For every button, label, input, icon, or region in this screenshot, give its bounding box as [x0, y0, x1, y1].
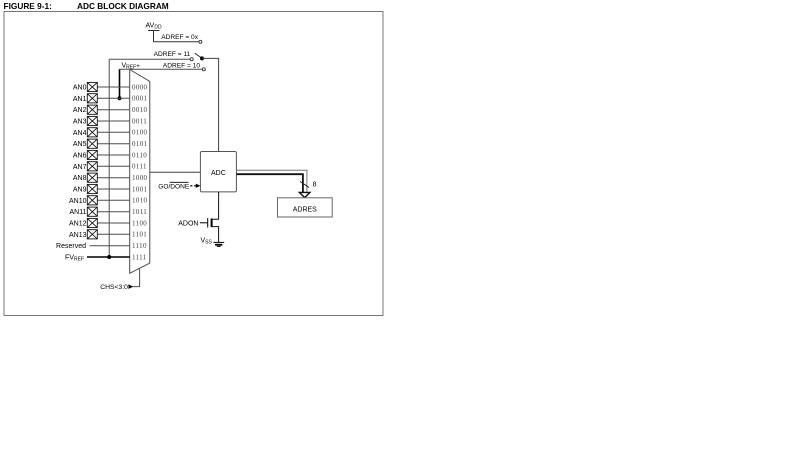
wire ADREF=11: [109, 58, 190, 60]
transistor Q1 ADON (NMOS): [200, 218, 212, 227]
wire ADC bottom to transistor drain: [212, 192, 218, 219]
svg-text:0011: 0011: [132, 117, 147, 125]
svg-text:0111: 0111: [132, 163, 147, 171]
svg-text:AN13: AN13: [69, 232, 87, 239]
svg-text:VSS: VSS: [201, 237, 213, 245]
input row FVREF: [65, 255, 130, 263]
analog switch box AN10: [87, 196, 97, 205]
input row AN10: [69, 198, 130, 205]
svg-text:ADC: ADC: [211, 170, 226, 177]
switch contact circle ADREF=0x: [199, 40, 202, 43]
analog switch box AN4: [87, 128, 97, 137]
analog switch box AN2: [87, 105, 97, 114]
switch contact circle ADREF=11: [190, 58, 193, 61]
ADRES box: [278, 198, 333, 217]
analog switch box AN5: [87, 139, 97, 148]
svg-text:1111: 1111: [132, 253, 147, 261]
svg-text:GO/DONE: GO/DONE: [158, 183, 190, 190]
junction dot FVREF: [107, 255, 111, 259]
svg-text:1000: 1000: [132, 174, 148, 182]
power AVDD label: [146, 23, 162, 31]
input row Reserved: [56, 243, 130, 250]
bus ADC to ADRES: [236, 170, 307, 193]
analog switch box AN6: [87, 150, 97, 159]
svg-text:Reserved: Reserved: [56, 243, 86, 250]
input row AN2: [73, 107, 130, 114]
svg-text:FVREF: FVREF: [65, 255, 84, 263]
wire VREF+ drop to AN1: [119, 69, 121, 98]
analog switch box AN13: [87, 230, 97, 239]
svg-text:AN4: AN4: [73, 130, 87, 137]
svg-text:0000: 0000: [132, 83, 148, 91]
svg-text:1101: 1101: [132, 231, 147, 239]
svg-text:AN8: AN8: [73, 175, 87, 182]
svg-text:0110: 0110: [132, 151, 147, 159]
analog switch box AN0: [87, 82, 97, 91]
figure frame: [4, 12, 383, 316]
svg-text:AN5: AN5: [73, 141, 87, 148]
analog switch box AN11: [87, 207, 97, 216]
svg-text:8: 8: [313, 182, 317, 189]
input row AN5: [73, 141, 130, 148]
svg-text:ADREF = 0x: ADREF = 0x: [161, 34, 199, 41]
svg-text:AN2: AN2: [73, 107, 87, 114]
input row AN4: [73, 130, 130, 137]
mux trapezoid: [130, 70, 150, 274]
input row AN1: [73, 96, 130, 103]
junction dot switch common: [200, 56, 204, 60]
input row AN9: [73, 187, 130, 194]
analog switch box AN3: [87, 116, 97, 125]
analog switch box AN9: [87, 184, 97, 193]
label GO/DONE with overline: [158, 182, 190, 190]
svg-text:1010: 1010: [132, 197, 148, 205]
power AVDD rail symbol: [148, 31, 160, 42]
svg-text:0101: 0101: [132, 140, 148, 148]
svg-text:AN3: AN3: [73, 119, 87, 126]
wire mux select CHS: [132, 269, 140, 287]
ground symbol: [214, 242, 225, 246]
svg-text:AN12: AN12: [69, 221, 87, 228]
svg-text:0001: 0001: [132, 95, 148, 103]
svg-text:AN10: AN10: [69, 198, 87, 205]
svg-text:1110: 1110: [132, 242, 147, 250]
junction dot VREF+ AN1: [118, 96, 122, 100]
wire switch common to ADC: [202, 58, 219, 151]
svg-text:AVDD: AVDD: [146, 23, 162, 31]
svg-text:AN6: AN6: [73, 153, 87, 160]
svg-text:0100: 0100: [132, 129, 148, 137]
input row AN8: [73, 175, 130, 182]
svg-text:ADC BLOCK DIAGRAM: ADC BLOCK DIAGRAM: [77, 1, 169, 11]
svg-text:ADREF = 10: ADREF = 10: [163, 62, 201, 69]
analog switch box AN1: [87, 94, 97, 103]
bus arrowhead: [299, 192, 310, 197]
analog switch box AN12: [87, 218, 97, 227]
svg-text:AN0: AN0: [73, 85, 87, 92]
wire mux output to ADC: [150, 171, 201, 173]
label CHS<3:0> with arrow: [100, 284, 133, 291]
svg-text:ADREF = 11: ADREF = 11: [154, 51, 191, 58]
input row AN11: [70, 209, 130, 216]
svg-text:AN1: AN1: [73, 96, 87, 103]
analog switch box AN7: [87, 162, 97, 171]
svg-text:1011: 1011: [132, 208, 147, 216]
svg-text:AN9: AN9: [73, 187, 87, 194]
svg-text:CHS<3:0>: CHS<3:0>: [100, 284, 132, 291]
wire VREF+ / ADREF=10: [120, 68, 203, 70]
svg-text:1100: 1100: [132, 219, 147, 227]
analog switch box AN8: [87, 173, 97, 182]
svg-text:AN7: AN7: [73, 164, 87, 171]
switch contact circle ADREF=10: [202, 68, 205, 71]
svg-text:AN11: AN11: [70, 209, 87, 216]
dashed arrow GO/DONE to ADC: [190, 184, 200, 188]
input row AN6: [73, 153, 130, 160]
input row AN12: [69, 221, 130, 228]
input row AN7: [73, 164, 130, 171]
input row AN0: [73, 85, 130, 92]
wire AVDD to switch contact: [153, 41, 199, 43]
svg-text:ADRES: ADRES: [293, 206, 317, 213]
switch blade: [195, 53, 202, 58]
svg-text:1001: 1001: [132, 185, 148, 193]
wire transistor source to ground: [212, 227, 218, 243]
input row AN3: [73, 119, 130, 126]
input row AN13: [69, 232, 130, 239]
svg-text:FIGURE 9-1:: FIGURE 9-1:: [4, 1, 52, 11]
svg-text:0010: 0010: [132, 106, 148, 114]
ADC box U1: [200, 152, 236, 192]
bus width slash: [300, 182, 309, 188]
wire ADREF=11 drop to FVREF: [108, 59, 110, 257]
svg-text:ADON: ADON: [178, 220, 198, 227]
